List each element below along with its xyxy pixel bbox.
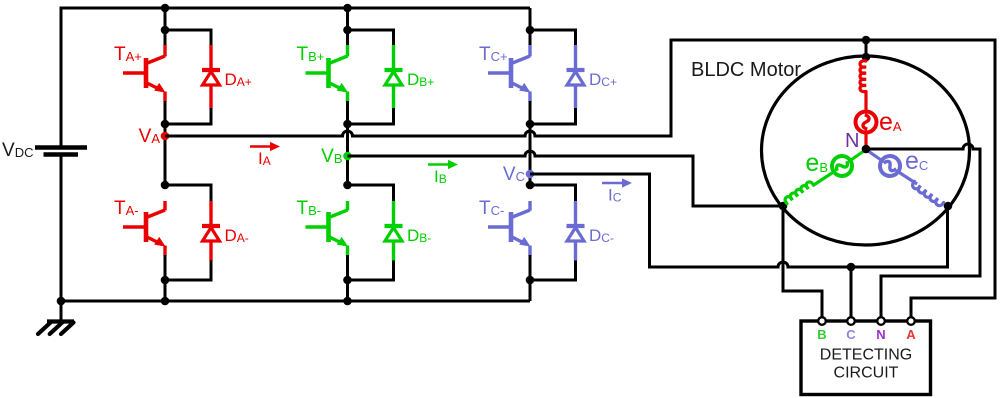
svg-text:B: B <box>817 327 826 342</box>
wire leg B emitter to V node <box>346 101 349 185</box>
node lower loop bottom B <box>343 276 352 285</box>
wire upper diode bottom black A <box>165 108 211 124</box>
wire leg B lower collector stub <box>346 201 349 211</box>
wire leg B lower emitter stub <box>346 246 349 256</box>
detecting circuit box <box>801 321 931 395</box>
svg-text:CIRCUIT: CIRCUIT <box>834 365 899 382</box>
wire leg C lower collector stub <box>528 201 531 211</box>
wire left DC link vertical (lower) <box>60 157 63 302</box>
battery VDC <box>35 145 87 150</box>
wire bottom DC- rail <box>61 300 530 303</box>
wire leg A lower emitter to rail <box>164 255 167 301</box>
wire lower diode lead colored C <box>574 201 577 226</box>
terminal N <box>877 317 885 325</box>
back-EMF source eC <box>876 152 904 180</box>
current arrow IA <box>250 145 272 148</box>
node upper loop top A <box>161 26 170 35</box>
wire leg C emitter to V node <box>529 101 532 185</box>
wire phase B sense: motor left terminal down to detecting B <box>783 206 822 320</box>
winding phase B (green coil) <box>785 182 813 204</box>
wire lower diode bottom black A <box>165 261 211 281</box>
wire phase C sense down to detecting C <box>850 267 853 320</box>
node upper loop bottom B <box>343 120 352 129</box>
transistor TC+ <box>509 58 514 88</box>
wire leg C lower emitter stub <box>528 246 531 256</box>
node motor terminal C <box>944 202 953 211</box>
node motor terminal A <box>862 53 871 62</box>
wire upper diode lead colored B <box>392 45 395 70</box>
node upper loop top C <box>526 26 535 35</box>
transistor TB- <box>326 212 331 242</box>
node DC- rail / leg A <box>161 297 170 306</box>
svg-text:A: A <box>906 327 916 342</box>
wire lower diode loop top A <box>165 185 211 202</box>
wire leg A upper: rail to transistor <box>164 8 167 46</box>
diode DC+ <box>567 68 585 72</box>
node neutral N <box>862 145 871 154</box>
wire leg A emitter to V node <box>164 101 167 185</box>
wire leg B emitter stub <box>346 92 349 102</box>
winding phase A (red coil) <box>860 61 866 92</box>
node DC- rail / leg B <box>343 297 352 306</box>
node phase A tap <box>862 36 871 45</box>
wire leg B lower emitter to rail <box>346 255 349 301</box>
wire phase A down to motor <box>865 40 868 56</box>
wire lower diode bottom black C <box>530 261 576 281</box>
node phase C tap <box>847 263 856 272</box>
node upper loop top B <box>343 26 352 35</box>
wire upper diode loop top A <box>165 30 211 46</box>
node upper loop bottom C <box>526 120 535 129</box>
wire leg A collector stub <box>163 45 166 57</box>
node lower loop bottom C <box>526 276 535 285</box>
transistor TC- <box>509 212 514 242</box>
wire leg C upper: rail to transistor <box>529 8 532 46</box>
wire leg C collector stub <box>528 45 531 57</box>
terminal A <box>907 317 915 325</box>
wire upper diode lead colored C <box>574 45 577 70</box>
wire leg A lower collector stub <box>163 201 166 211</box>
wire leg A emitter stub <box>163 92 166 102</box>
wire phase A winding lead <box>864 92 867 111</box>
terminal C <box>847 317 855 325</box>
svg-text:C: C <box>846 327 856 342</box>
wire upper diode lead colored A <box>209 45 212 70</box>
node lower loop top B <box>343 181 352 190</box>
node VC <box>526 170 535 179</box>
wire phase A sense to detecting A <box>911 39 995 321</box>
node motor terminal B <box>779 202 788 211</box>
current arrow IB <box>428 163 450 166</box>
diode DC- <box>567 224 585 228</box>
wire upper diode bottom black C <box>530 108 576 124</box>
wire lower diode loop top C <box>530 185 576 202</box>
svg-text:N: N <box>876 327 885 342</box>
wire phase C winding lead <box>866 150 881 161</box>
wire upper diode loop top B <box>348 30 394 46</box>
node lower loop bottom A <box>161 276 170 285</box>
wire upper diode bottom black B <box>348 108 394 124</box>
transistor TB+ <box>326 58 331 88</box>
wire top DC+ rail <box>61 7 530 10</box>
terminal B <box>818 317 826 325</box>
current arrow IC <box>602 182 624 185</box>
node lower loop top A <box>161 181 170 190</box>
wire leg B upper: rail to transistor <box>346 8 349 46</box>
wire leg A lower emitter stub <box>163 246 166 256</box>
winding phase C (blue coil) <box>913 182 944 206</box>
diode DB- <box>385 224 403 228</box>
ground symbol <box>60 301 63 321</box>
wire leg B collector stub <box>346 45 349 57</box>
wire lower diode lead colored B <box>392 201 395 226</box>
svg-text:N: N <box>845 130 859 152</box>
wire upper diode loop top C <box>530 30 576 46</box>
node DC+ rail / leg B <box>343 4 352 13</box>
node ground junction <box>57 297 66 306</box>
wire neutral N to detecting N <box>866 144 980 149</box>
wire phase B output: VB right, down, to motor left <box>348 151 694 156</box>
back-EMF source eA <box>856 112 877 133</box>
wire leg C emitter stub <box>528 92 531 102</box>
BLDC motor stator boundary <box>762 56 970 245</box>
transistor TA- <box>144 212 149 242</box>
node lower loop top C <box>526 181 535 190</box>
back-EMF source eB <box>828 152 856 180</box>
node VB <box>343 152 352 161</box>
node VA <box>161 132 170 141</box>
wire leg C lower emitter to rail <box>529 255 532 301</box>
wire lower diode lead colored A <box>209 201 212 226</box>
transistor TA+ <box>144 58 149 88</box>
diode DA- <box>202 224 220 228</box>
node DC+ rail / leg A <box>161 4 170 13</box>
svg-text:BLDC Motor: BLDC Motor <box>691 59 801 81</box>
wire eA to N <box>864 133 867 150</box>
wire phase B winding lead + eB to N <box>813 172 834 186</box>
wire left DC link vertical (upper) <box>60 7 63 146</box>
wire lower diode bottom black B <box>348 261 394 281</box>
node upper loop bottom A <box>161 120 170 129</box>
wire phase C output: VC right, down, along bottom, to motor right <box>530 174 650 267</box>
diode DB+ <box>385 68 403 72</box>
wire lower diode loop top B <box>348 185 394 202</box>
svg-text:DETECTING: DETECTING <box>820 347 912 364</box>
wire phase A output: VA right, up, to motor top <box>165 131 671 136</box>
diode DA+ <box>202 68 220 72</box>
